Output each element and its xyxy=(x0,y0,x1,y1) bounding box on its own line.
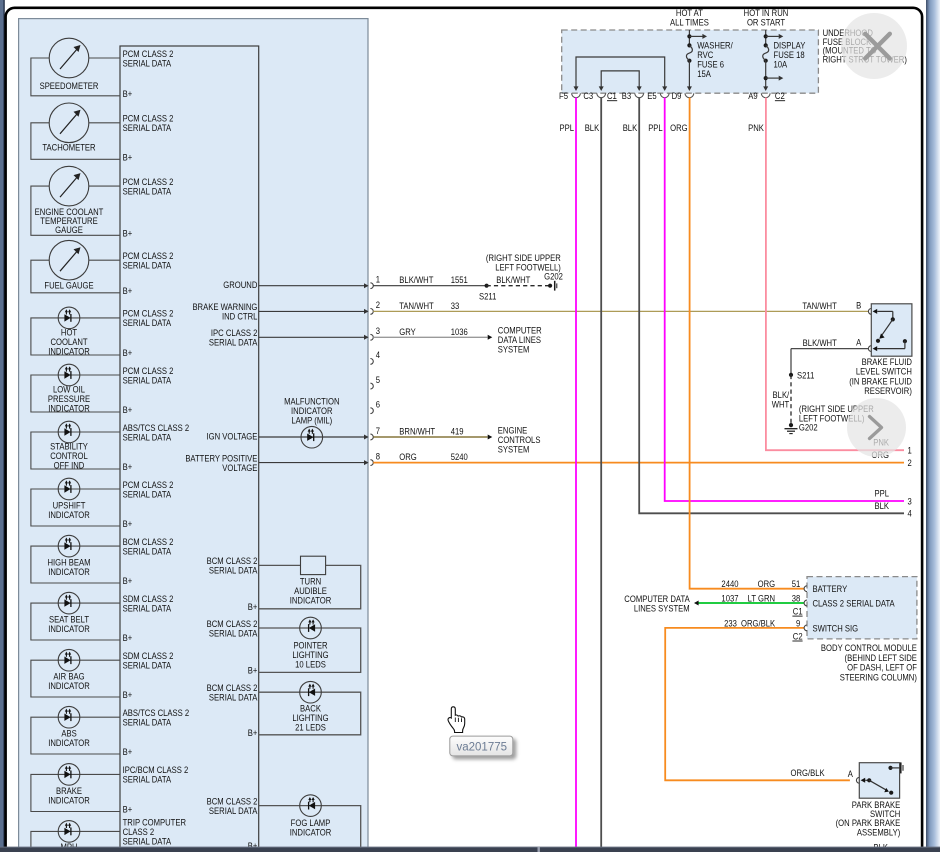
svg-text:15A: 15A xyxy=(697,68,711,79)
indicator lamp High Beam Indicator xyxy=(58,535,80,557)
wire ORG 5240 pin 8 xyxy=(373,462,904,464)
svg-text:21 LEDS: 21 LEDS xyxy=(295,722,326,733)
svg-text:B+: B+ xyxy=(123,227,133,238)
svg-text:SERIAL DATA: SERIAL DATA xyxy=(123,717,172,728)
IPC connector cavity pin 2 xyxy=(370,309,373,315)
svg-text:1551: 1551 xyxy=(451,274,468,285)
svg-text:INDICATOR: INDICATOR xyxy=(290,827,332,838)
next page button xyxy=(847,398,906,457)
svg-text:B+: B+ xyxy=(123,575,133,586)
svg-text:GRY: GRY xyxy=(399,326,416,337)
Mph Indicator box xyxy=(31,831,120,852)
wire IPC row 1 to connector xyxy=(259,285,365,287)
svg-text:TAN/WHT: TAN/WHT xyxy=(399,300,434,311)
svg-text:1: 1 xyxy=(376,274,380,285)
svg-text:2: 2 xyxy=(908,457,912,468)
svg-text:B+: B+ xyxy=(123,689,133,700)
svg-text:5240: 5240 xyxy=(451,451,468,462)
fuse block connector cavity F5 xyxy=(572,93,581,97)
tooltip va201775 xyxy=(450,736,513,756)
svg-text:B+: B+ xyxy=(248,665,258,676)
svg-text:VOLTAGE: VOLTAGE xyxy=(222,462,257,473)
svg-text:BATTERY: BATTERY xyxy=(813,583,848,594)
wire ORG from D9 to BCM pin 51 xyxy=(690,98,805,589)
svg-text:SYSTEM: SYSTEM xyxy=(498,344,530,355)
svg-text:SERIAL DATA: SERIAL DATA xyxy=(123,431,172,442)
svg-text:LEFT FOOTWELL): LEFT FOOTWELL) xyxy=(495,262,561,273)
svg-text:B+: B+ xyxy=(123,632,133,643)
svg-text:ORG: ORG xyxy=(670,122,688,133)
svg-text:INDICATOR: INDICATOR xyxy=(48,566,90,577)
park brake switch internal contacts xyxy=(865,779,869,781)
wire PPL from E5 to pin 3 xyxy=(665,98,904,502)
ground G202 xyxy=(789,423,793,427)
svg-text:INDICATOR: INDICATOR xyxy=(290,595,332,606)
svg-text:SERIAL DATA: SERIAL DATA xyxy=(209,627,258,638)
svg-text:S211: S211 xyxy=(797,370,815,381)
Hot Coolant Indicator box xyxy=(31,318,120,355)
svg-text:233: 233 xyxy=(724,617,737,628)
svg-text:RESERVOIR): RESERVOIR) xyxy=(864,385,912,396)
park brake switch case ground terminal xyxy=(900,762,902,773)
svg-text:B+: B+ xyxy=(248,601,258,612)
svg-text:D9: D9 xyxy=(672,90,682,101)
svg-text:ORG: ORG xyxy=(399,451,417,462)
splice S211 right xyxy=(789,373,793,377)
IPC connector cavity pin 3 xyxy=(370,334,373,340)
fuse block connector cavity A9 xyxy=(761,93,770,97)
svg-text:C1: C1 xyxy=(607,90,617,101)
Tachometer box xyxy=(31,123,120,160)
svg-text:C2: C2 xyxy=(793,631,803,642)
IPC connector cavity pin 8 xyxy=(370,460,373,466)
svg-text:10 LEDS: 10 LEDS xyxy=(295,659,326,670)
svg-text:51: 51 xyxy=(792,578,801,589)
svg-text:SERIAL DATA: SERIAL DATA xyxy=(123,317,172,328)
rect indicator symbol Turn Audible Indicator xyxy=(301,556,326,574)
wire TAN/WHT 33 pin 2 xyxy=(373,310,868,312)
svg-text:SERIAL DATA: SERIAL DATA xyxy=(123,836,172,847)
Stability Control Off Ind box xyxy=(31,432,120,469)
bottom window bar xyxy=(0,847,940,852)
indicator lamp Pointer Lighting 10 Leds xyxy=(300,617,322,639)
brake fluid switch pin B cavity xyxy=(868,309,871,315)
svg-text:419: 419 xyxy=(451,426,464,437)
BCM pin 38 cavity xyxy=(804,600,807,606)
park brake switch box xyxy=(859,763,899,799)
fuse block internal bus F5-E5 xyxy=(576,57,665,87)
svg-text:BLK: BLK xyxy=(874,500,889,511)
svg-text:S211: S211 xyxy=(479,291,497,302)
indicator lamp Brake Indicator xyxy=(58,764,80,786)
svg-text:STEERING COLUMN): STEERING COLUMN) xyxy=(840,671,917,682)
wire BLK from C3 xyxy=(600,98,602,848)
svg-text:SERIAL DATA: SERIAL DATA xyxy=(123,603,172,614)
Air Bag Indicator box xyxy=(31,660,120,697)
IPC connector cavity pin 6 xyxy=(370,408,373,414)
svg-text:B+: B+ xyxy=(123,151,133,162)
svg-text:SERIAL DATA: SERIAL DATA xyxy=(123,660,172,671)
svg-text:2440: 2440 xyxy=(721,578,738,589)
svg-text:GROUND: GROUND xyxy=(223,279,257,290)
Brake Indicator box xyxy=(31,774,120,811)
svg-text:WHT: WHT xyxy=(772,399,790,410)
wire PPL from F5 xyxy=(575,98,577,848)
Fuel Gauge box xyxy=(31,260,120,293)
Pointer Lighting 10 Leds box xyxy=(259,628,361,672)
High Beam Indicator box xyxy=(31,546,120,583)
svg-text:SWITCH SIG: SWITCH SIG xyxy=(813,622,859,633)
ground terminal G202 xyxy=(548,284,552,288)
svg-text:B: B xyxy=(856,300,861,311)
svg-text:4: 4 xyxy=(908,508,912,519)
gauge symbol Fuel Gauge xyxy=(49,240,89,280)
Abs Indicator box xyxy=(31,717,120,754)
IPC internal box xyxy=(120,46,259,852)
svg-text:INDICATOR: INDICATOR xyxy=(48,345,90,356)
svg-text:1: 1 xyxy=(908,445,912,456)
indicator lamp Mph Indicator xyxy=(58,821,80,843)
svg-text:6: 6 xyxy=(376,399,380,410)
svg-text:INDICATOR: INDICATOR xyxy=(48,795,90,806)
Low Oil Pressure Indicator box xyxy=(31,375,120,412)
wire GRY 1036 pin 3 xyxy=(373,336,487,338)
wire IPC row 7 to connector xyxy=(259,436,365,438)
svg-text:IGN VOLTAGE: IGN VOLTAGE xyxy=(207,431,258,442)
svg-text:SERIAL DATA: SERIAL DATA xyxy=(209,337,258,348)
svg-text:5: 5 xyxy=(376,374,380,385)
svg-text:SERIAL DATA: SERIAL DATA xyxy=(123,546,172,557)
svg-text:B+: B+ xyxy=(123,404,133,415)
indicator lamp Upshift Indicator xyxy=(58,478,80,500)
wire BLK from B3 to pin 4 xyxy=(639,98,904,514)
indicator lamp Fog Lamp Indicator xyxy=(300,795,322,817)
wire LT GRN 1037 class 2 serial data xyxy=(696,602,805,604)
fuse F2 display fuse 18 10A xyxy=(765,30,767,45)
svg-text:PPL: PPL xyxy=(874,488,889,499)
svg-text:BLK/WHT: BLK/WHT xyxy=(496,274,531,285)
svg-text:FUEL GAUGE: FUEL GAUGE xyxy=(44,280,93,291)
wire BLK/WHT to brake fluid switch xyxy=(791,348,868,350)
svg-text:B+: B+ xyxy=(123,746,133,757)
svg-text:9: 9 xyxy=(796,617,800,628)
indicator lamp Hot Coolant Indicator xyxy=(58,307,80,329)
gauge symbol Engine Coolant Temperature Gauge xyxy=(49,166,89,206)
svg-text:INDICATOR: INDICATOR xyxy=(48,680,90,691)
svg-text:OFF IND: OFF IND xyxy=(54,460,85,471)
svg-text:IND CTRL: IND CTRL xyxy=(222,311,258,322)
svg-text:INDICATOR: INDICATOR xyxy=(48,403,90,414)
svg-text:C2: C2 xyxy=(775,90,785,101)
svg-text:B+: B+ xyxy=(123,804,133,815)
dashed wire BLK/WHT to G202 xyxy=(487,285,550,287)
close button xyxy=(841,13,907,79)
Speedometer box xyxy=(31,58,120,96)
svg-text:SPEEDOMETER: SPEEDOMETER xyxy=(40,80,99,91)
svg-text:33: 33 xyxy=(451,300,460,311)
svg-text:ALL TIMES: ALL TIMES xyxy=(670,16,709,27)
svg-text:SERIAL DATA: SERIAL DATA xyxy=(123,774,172,785)
svg-text:E5: E5 xyxy=(647,90,657,101)
Back Lighting 21 Leds box xyxy=(259,692,361,735)
svg-text:7: 7 xyxy=(376,425,380,436)
svg-text:TACHOMETER: TACHOMETER xyxy=(42,142,95,153)
fuse block connector cavity E5 xyxy=(660,93,669,97)
svg-text:1037: 1037 xyxy=(721,593,738,604)
svg-text:B+: B+ xyxy=(123,285,133,296)
svg-text:SERIAL DATA: SERIAL DATA xyxy=(209,805,258,816)
fuse block connector cavity B3 xyxy=(635,93,644,97)
wire IPC row 8 to connector xyxy=(259,462,365,464)
svg-text:SERIAL DATA: SERIAL DATA xyxy=(209,692,258,703)
svg-text:PPL: PPL xyxy=(559,122,574,133)
svg-text:PPL: PPL xyxy=(648,122,663,133)
right scrollbar strip xyxy=(926,0,940,852)
svg-text:SERIAL DATA: SERIAL DATA xyxy=(123,260,172,271)
Fog Lamp Indicator box xyxy=(259,806,361,848)
svg-text:GAUGE: GAUGE xyxy=(55,224,83,235)
svg-text:ORG/BLK: ORG/BLK xyxy=(741,617,775,628)
IPC connector cavity pin 1 xyxy=(370,283,373,289)
svg-text:B3: B3 xyxy=(622,90,632,101)
svg-text:B+: B+ xyxy=(123,461,133,472)
svg-text:PNK: PNK xyxy=(748,122,764,133)
svg-text:BLK: BLK xyxy=(623,122,638,133)
svg-text:A: A xyxy=(856,337,861,348)
indicator lamp Air Bag Indicator xyxy=(58,649,80,671)
svg-text:SERIAL DATA: SERIAL DATA xyxy=(123,122,172,133)
wire ORG/BLK 233 switch signal xyxy=(665,628,850,780)
svg-text:3: 3 xyxy=(376,325,380,336)
svg-text:INDICATOR: INDICATOR xyxy=(48,737,90,748)
svg-text:BRN/WHT: BRN/WHT xyxy=(399,426,435,437)
dashed BLK/WHT wire to G202 ground xyxy=(790,375,792,423)
svg-text:LINES SYSTEM: LINES SYSTEM xyxy=(634,602,690,613)
svg-text:SYSTEM: SYSTEM xyxy=(498,444,530,455)
indicator lamp Seat Belt Indicator xyxy=(58,592,80,614)
svg-text:B+: B+ xyxy=(123,347,133,358)
gauge symbol Speedometer xyxy=(49,38,89,78)
svg-text:8: 8 xyxy=(376,451,380,462)
brake fluid switch internal contacts xyxy=(877,310,893,312)
wire PNK from A9 to pin 1 xyxy=(766,98,904,451)
svg-text:BLK: BLK xyxy=(585,122,600,133)
svg-text:BLK/WHT: BLK/WHT xyxy=(803,337,838,348)
brake fluid level switch box xyxy=(871,304,912,356)
fuse F1 washer/RVC fuse 6 15A xyxy=(688,30,690,45)
svg-text:3: 3 xyxy=(908,496,912,507)
BCM pin 9 cavity xyxy=(804,625,807,631)
Engine Coolant Temperature Gauge box xyxy=(31,186,120,235)
svg-text:ORG: ORG xyxy=(758,578,776,589)
indicator lamp Back Lighting 21 Leds xyxy=(300,681,322,703)
gauge symbol Tachometer xyxy=(49,103,89,143)
svg-text:SERIAL DATA: SERIAL DATA xyxy=(209,565,258,576)
svg-text:C1: C1 xyxy=(793,606,803,617)
svg-text:1036: 1036 xyxy=(451,326,468,337)
indicator lamp Stability Control Off Ind xyxy=(58,421,80,443)
wire IPC row 3 to connector xyxy=(259,336,365,338)
body control module dashed box xyxy=(807,577,917,639)
svg-text:4: 4 xyxy=(376,349,380,360)
left window edge strip xyxy=(0,0,4,852)
svg-text:38: 38 xyxy=(792,593,801,604)
svg-text:B+: B+ xyxy=(248,727,258,738)
indicator lamp Abs Indicator xyxy=(58,706,80,728)
svg-text:LT GRN: LT GRN xyxy=(748,593,775,604)
svg-text:SERIAL DATA: SERIAL DATA xyxy=(123,374,172,385)
svg-text:ORG/BLK: ORG/BLK xyxy=(790,767,824,778)
svg-text:10A: 10A xyxy=(774,59,788,70)
svg-text:G202: G202 xyxy=(799,422,818,433)
svg-text:SERIAL DATA: SERIAL DATA xyxy=(123,186,172,197)
wire BLK/WHT 1551 pin 1 xyxy=(373,285,486,287)
svg-text:F5: F5 xyxy=(559,90,568,101)
splice S211 xyxy=(485,284,489,288)
svg-text:va201775: va201775 xyxy=(457,742,508,754)
indicator lamp Low Oil Pressure Indicator xyxy=(58,364,80,386)
underhood fuse block dashed box xyxy=(562,30,819,93)
svg-text:BLK/WHT: BLK/WHT xyxy=(399,274,434,285)
svg-text:B+: B+ xyxy=(123,518,133,529)
svg-text:A: A xyxy=(848,768,853,779)
svg-text:2: 2 xyxy=(376,299,380,310)
svg-text:OR START: OR START xyxy=(747,16,786,27)
fuse block internal bus C3-B3 xyxy=(601,71,639,87)
mouse cursor xyxy=(448,707,465,733)
fuse block connector cavity C3 xyxy=(597,93,606,97)
svg-text:TAN/WHT: TAN/WHT xyxy=(802,300,837,311)
svg-text:INDICATOR: INDICATOR xyxy=(48,623,90,634)
Upshift Indicator box xyxy=(31,489,120,526)
svg-text:SERIAL DATA: SERIAL DATA xyxy=(123,57,172,68)
svg-text:CLASS 2 SERIAL DATA: CLASS 2 SERIAL DATA xyxy=(813,598,895,609)
svg-text:B+: B+ xyxy=(123,88,133,99)
BCM pin 51 cavity xyxy=(804,586,807,592)
IPC connector cavity pin 4 xyxy=(370,359,373,365)
svg-text:C3: C3 xyxy=(583,90,593,101)
malfunction indicator lamp U1 xyxy=(301,426,323,448)
svg-text:A9: A9 xyxy=(748,90,758,101)
Turn Audible Indicator box xyxy=(259,565,361,608)
svg-text:ASSEMBLY): ASSEMBLY) xyxy=(857,826,900,837)
svg-text:LAMP (MIL): LAMP (MIL) xyxy=(291,415,332,426)
wire BRN/WHT 419 pin 7 xyxy=(373,436,487,438)
instrument panel cluster outline xyxy=(19,19,368,852)
IPC connector cavity pin 5 xyxy=(370,383,373,389)
wire IPC row 2 to connector xyxy=(259,310,365,312)
Seat Belt Indicator box xyxy=(31,603,120,640)
fuse block connector cavity D9 xyxy=(685,93,694,97)
svg-text:INDICATOR: INDICATOR xyxy=(48,509,90,520)
park brake switch pin A cavity xyxy=(856,777,859,783)
svg-text:SERIAL DATA: SERIAL DATA xyxy=(123,488,172,499)
brake fluid switch pin A cavity xyxy=(868,346,871,352)
IPC connector cavity pin 7 xyxy=(370,434,373,440)
